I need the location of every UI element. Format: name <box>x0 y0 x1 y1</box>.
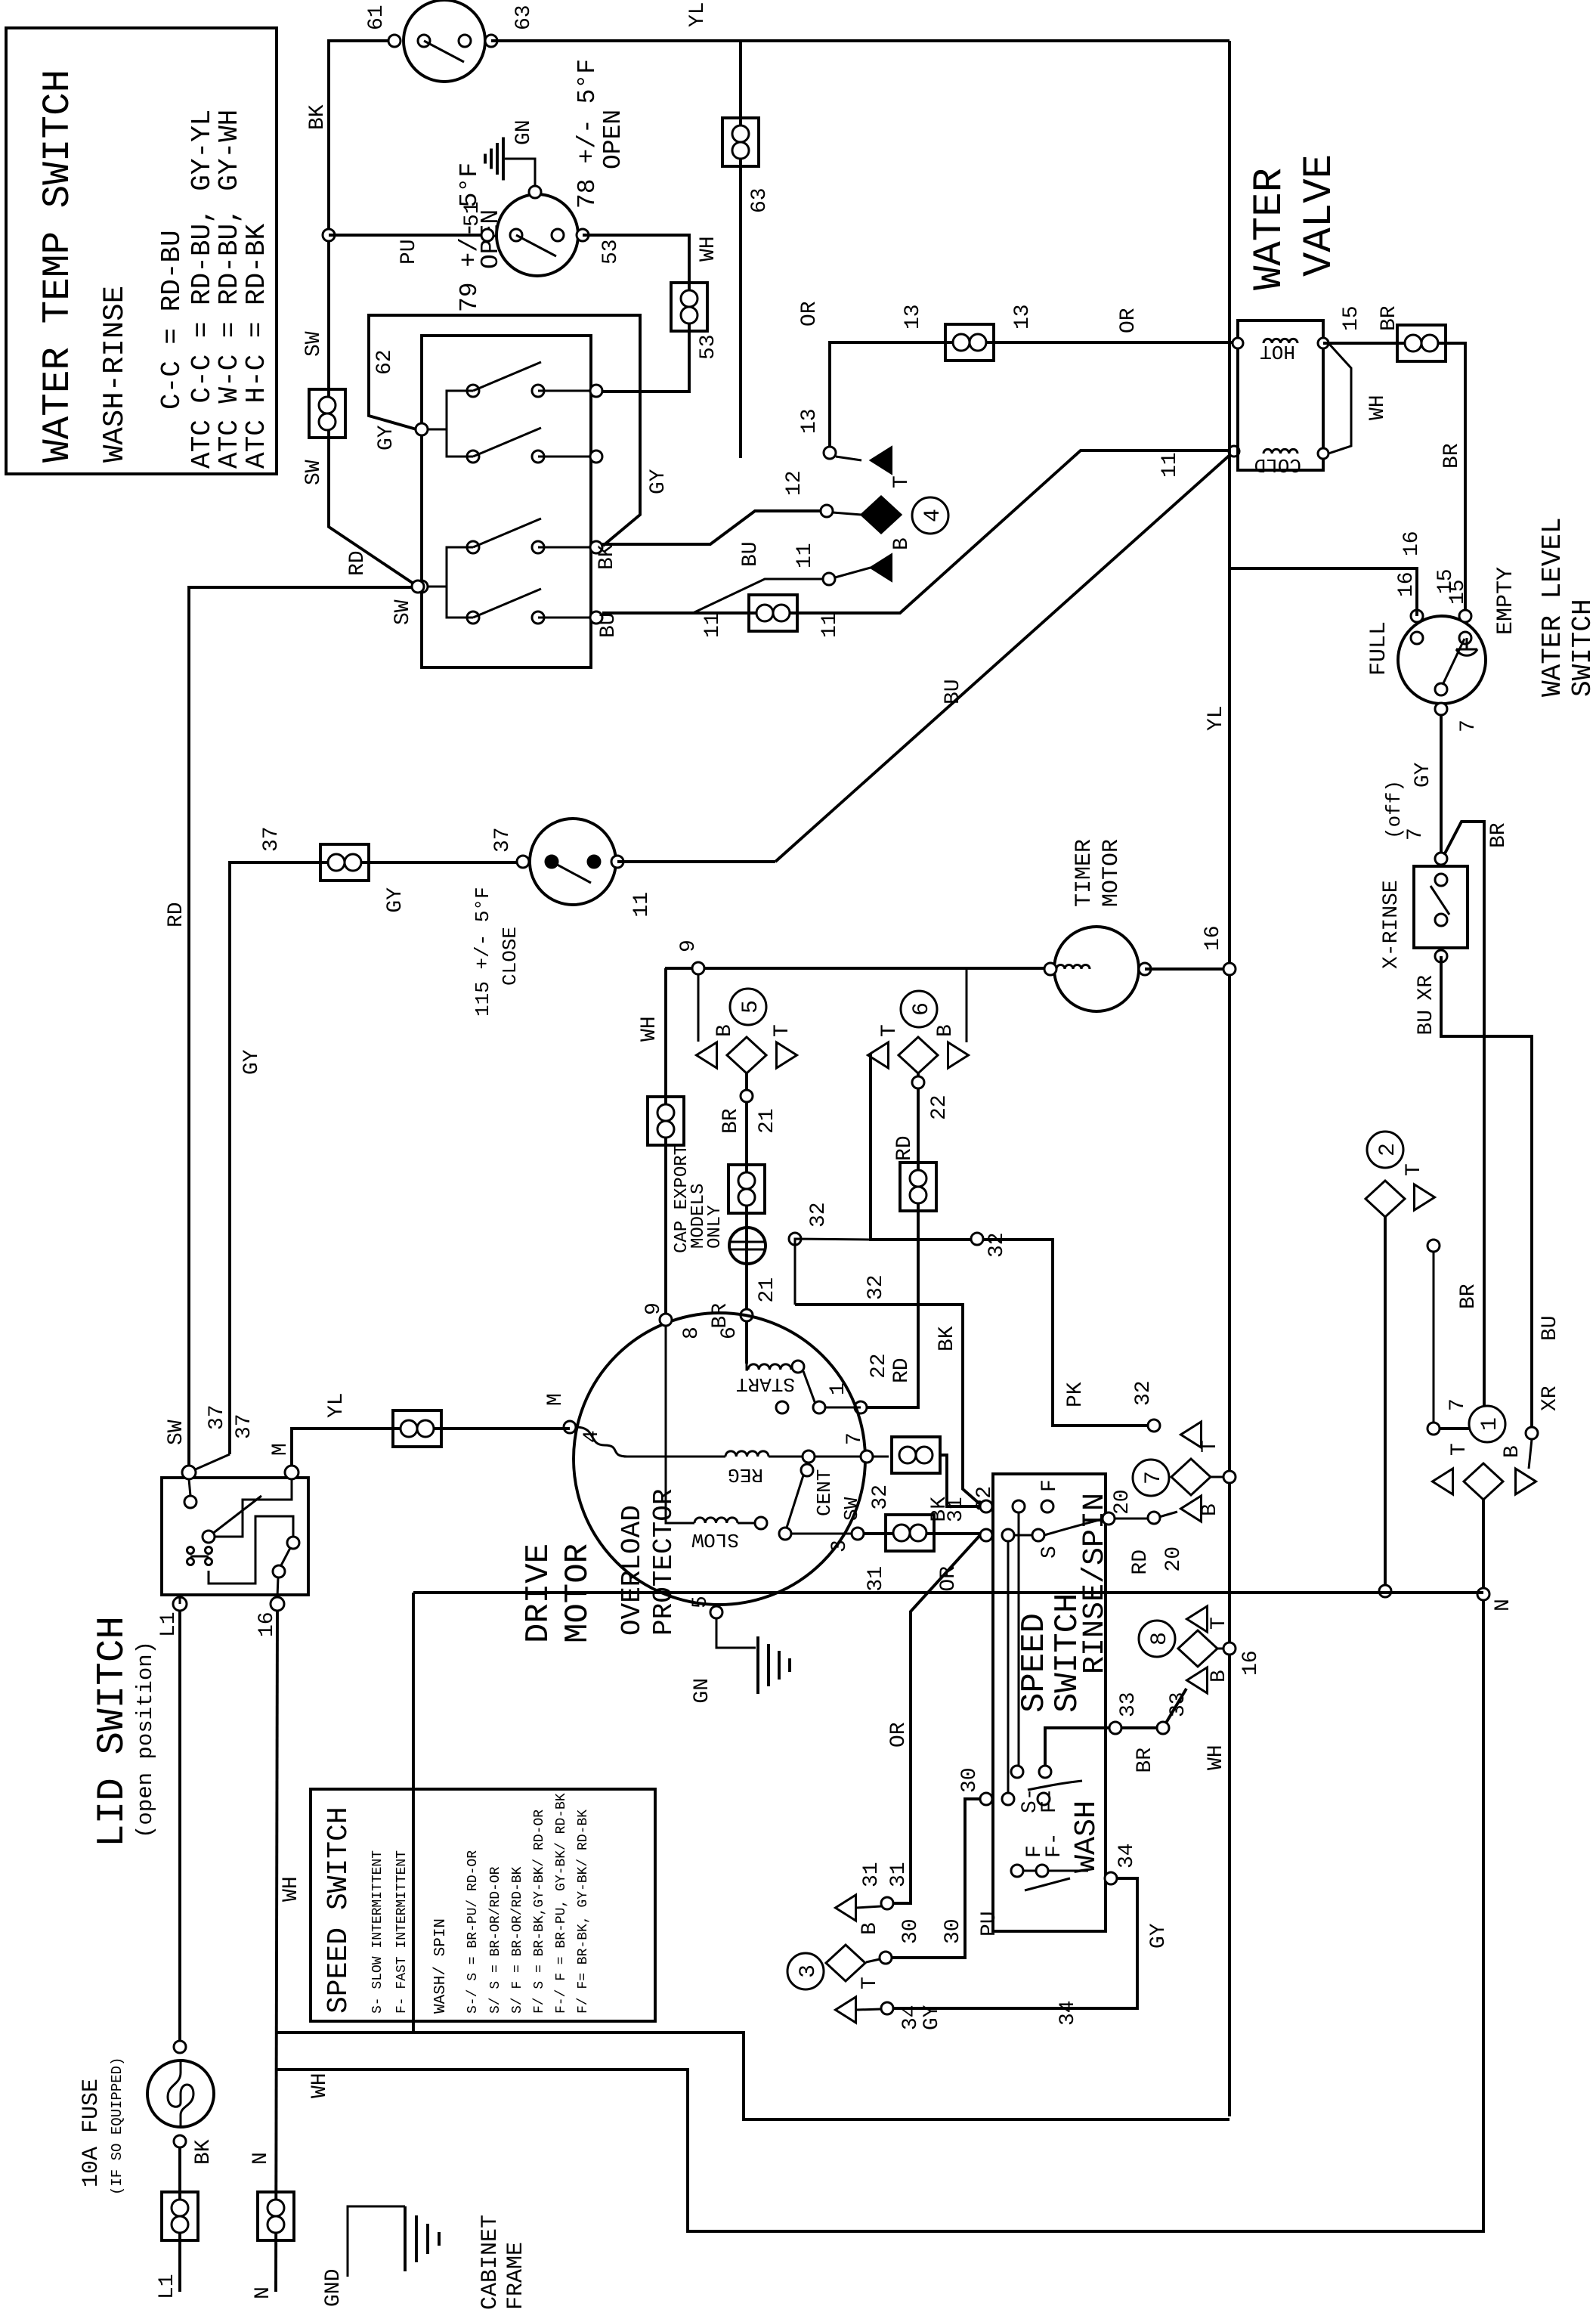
CENT SW blade <box>787 1475 803 1528</box>
svg-text:31: 31 <box>860 1862 883 1887</box>
svg-text:OR: OR <box>887 1722 911 1748</box>
flag 5 circle 5 <box>730 989 766 1025</box>
link F pair <box>1023 1870 1036 1872</box>
svg-text:BR: BR <box>1134 1748 1157 1773</box>
svg-text:CLOSE: CLOSE <box>499 927 521 986</box>
switch blade WH <box>473 362 541 391</box>
svg-text:OR: OR <box>798 301 821 327</box>
svg-text:WH: WH <box>697 236 720 262</box>
svg-text:16: 16 <box>255 1611 279 1637</box>
switch blade BK <box>473 519 541 547</box>
svg-text:9: 9 <box>677 940 701 952</box>
bracket sw1-sw2 <box>447 391 473 457</box>
svg-text:N: N <box>249 2152 273 2165</box>
START contact <box>792 1361 804 1373</box>
svg-text:BR: BR <box>1440 443 1464 469</box>
flag 3 circle 3 <box>787 1953 824 1989</box>
svg-text:20: 20 <box>1111 1489 1134 1515</box>
START blade <box>803 1371 816 1406</box>
svg-text:T: T <box>1199 1440 1222 1453</box>
F pair contacts <box>1011 1865 1023 1877</box>
speed switch legend box <box>311 1789 655 2021</box>
svg-text:BK: BK <box>595 544 619 570</box>
flag 1 diamond <box>1464 1463 1503 1500</box>
node 7b <box>1427 1240 1440 1252</box>
wire GY 7 <box>1440 715 1443 853</box>
svg-text:37: 37 <box>206 1404 229 1430</box>
node XR <box>1526 1427 1538 1439</box>
wire 63 <box>739 41 742 458</box>
svg-text:OR: OR <box>1117 308 1140 333</box>
lid L1 terminal <box>173 1597 187 1611</box>
node 22b <box>855 1401 867 1413</box>
node F entry <box>980 1500 992 1512</box>
valve HOT terminals <box>1233 338 1243 348</box>
thermostat 79F blade <box>424 41 464 62</box>
svg-text:7: 7 <box>1141 1471 1167 1485</box>
svg-text:10A FUSE: 10A FUSE <box>79 2079 104 2187</box>
flag4 B stub <box>835 568 871 577</box>
svg-text:F: F <box>1038 1479 1062 1492</box>
lid SW terminal <box>182 1466 196 1479</box>
connector WH53 <box>671 283 707 331</box>
svg-text:S-/ S = BR-PU/ RD-OR: S-/ S = BR-PU/ RD-OR <box>466 1850 481 2014</box>
lid inner path <box>209 1516 293 1584</box>
x-rinse box <box>1414 866 1468 948</box>
lid switch box <box>162 1478 308 1595</box>
svg-text:15: 15 <box>1340 305 1363 331</box>
svg-text:BR: BR <box>1378 305 1401 331</box>
svg-text:S/ S = BR-OR/RD-OR: S/ S = BR-OR/RD-OR <box>488 1866 503 2014</box>
wire 9 to flag5 <box>697 974 700 1042</box>
svg-text:32: 32 <box>807 1202 830 1228</box>
svg-text:T: T <box>771 1024 794 1037</box>
svg-text:13: 13 <box>1011 304 1035 330</box>
lid tiny contacts <box>187 1559 194 1565</box>
wire YL right rail <box>491 39 1229 42</box>
wire 32 to F <box>940 1455 981 1506</box>
lid contact c <box>287 1537 299 1549</box>
svg-text:SPEED SWITCH: SPEED SWITCH <box>323 1807 355 2014</box>
30 contacts <box>1002 1793 1014 1805</box>
svg-text:(open position): (open position) <box>133 1641 158 1838</box>
svg-text:SW: SW <box>391 599 415 625</box>
node flag7 rail <box>1223 1471 1236 1483</box>
connector WH9 <box>648 1097 684 1145</box>
svg-text:F- FAST INTERMITTENT: F- FAST INTERMITTENT <box>394 1850 410 2014</box>
svg-text:S: S <box>1038 1546 1062 1559</box>
node flag8 rail <box>1223 1642 1236 1655</box>
wire 15 BR <box>1323 343 1465 613</box>
svg-text:M: M <box>544 1393 568 1406</box>
node 1 <box>813 1401 825 1413</box>
svg-text:COLD: COLD <box>1254 454 1301 476</box>
svg-text:F/ S = BR-BK,GY-BK/ RD-OR: F/ S = BR-BK,GY-BK/ RD-OR <box>532 1810 547 2014</box>
node 6 <box>741 1309 753 1321</box>
svg-text:61: 61 <box>365 5 388 30</box>
node 62 feed <box>416 423 428 435</box>
wire GND <box>348 2206 405 2277</box>
wire F pair drop <box>1048 1870 1088 1872</box>
connector BR15 <box>1397 325 1446 361</box>
switch contacts BK <box>467 541 479 553</box>
svg-text:GN: GN <box>691 1678 714 1704</box>
svg-text:62: 62 <box>373 349 397 375</box>
svg-text:HOT: HOT <box>1260 340 1295 363</box>
wire 53 WH <box>583 235 689 392</box>
svg-text:BK: BK <box>928 1497 951 1522</box>
flag 8 diamond <box>1178 1630 1217 1667</box>
svg-text:4: 4 <box>920 509 946 522</box>
svg-text:7: 7 <box>1457 720 1480 732</box>
svg-text:5: 5 <box>689 1596 713 1608</box>
node 12 <box>821 505 833 517</box>
wire 31 OR diag <box>893 1535 980 1903</box>
svg-text:GN: GN <box>512 119 536 145</box>
lid tiny link <box>190 1556 209 1558</box>
svg-text:BU: BU <box>597 612 620 638</box>
svg-text:115 +/- 5°F: 115 +/- 5°F <box>472 887 494 1017</box>
svg-text:T: T <box>1448 1443 1471 1456</box>
svg-text:16: 16 <box>1239 1650 1263 1676</box>
water valve box <box>1238 320 1323 470</box>
svg-text:51: 51 <box>461 201 484 227</box>
svg-text:WASH: WASH <box>1070 1800 1104 1873</box>
svg-text:22: 22 <box>928 1094 951 1120</box>
svg-text:11: 11 <box>630 892 654 918</box>
lid contact d <box>273 1565 285 1577</box>
timer contacts <box>1044 963 1056 975</box>
svg-text:15: 15 <box>1446 579 1470 605</box>
valve COLD coil <box>1263 449 1298 454</box>
svg-text:6: 6 <box>909 1002 935 1016</box>
svg-text:L1: L1 <box>156 2274 179 2299</box>
svg-text:7: 7 <box>1404 828 1427 841</box>
timer to rail <box>1145 967 1223 971</box>
wire motor internal bus <box>624 1320 666 1457</box>
wire 3 motor <box>791 1533 852 1535</box>
svg-text:L1: L1 <box>157 1611 181 1637</box>
flag 7 diamond <box>1171 1459 1211 1495</box>
diagonal BU from 115 switch <box>775 451 1234 862</box>
node 34 <box>881 2002 893 2014</box>
wire 34 GY <box>893 1878 1137 2008</box>
connector 13 <box>945 324 994 361</box>
flag 5 diamond <box>727 1037 766 1073</box>
wire motor internal to slow <box>666 1457 694 1523</box>
ground motor GN <box>756 1636 759 1694</box>
svg-text:XR: XR <box>1415 975 1438 1001</box>
svg-text:S- SLOW INTERMITTENT: S- SLOW INTERMITTENT <box>370 1850 385 2014</box>
flag 4 circle 4 <box>912 497 948 534</box>
flag 3 triangle T <box>836 1997 856 2023</box>
speed switch box <box>993 1474 1106 1931</box>
svg-text:3: 3 <box>796 1964 821 1978</box>
connector YL M <box>393 1410 441 1447</box>
long rail F <box>1018 1512 1020 1772</box>
svg-text:BR: BR <box>709 1303 732 1329</box>
lid blade 2 <box>281 1548 290 1565</box>
svg-text:32: 32 <box>869 1485 892 1510</box>
svg-text:N: N <box>1492 1599 1515 1611</box>
svg-text:21: 21 <box>756 1277 779 1303</box>
motor 5 contact <box>710 1606 722 1618</box>
115F contacts <box>517 856 529 868</box>
wire BK 32 <box>795 1305 981 1505</box>
long rail S <box>1007 1541 1010 1799</box>
svg-text:TIMER: TIMER <box>1072 839 1097 907</box>
REG contact <box>769 1456 803 1458</box>
svg-text:ATC H-C = RD-BK: ATC H-C = RD-BK <box>241 224 272 469</box>
SLOW coil <box>694 1518 738 1523</box>
connector RD22 <box>900 1163 936 1211</box>
svg-text:T: T <box>1208 1617 1231 1630</box>
svg-text:T: T <box>890 475 914 488</box>
svg-text:B: B <box>934 1024 957 1037</box>
svg-text:F/ F= BR-BK, GY-BK/ RD-BK: F/ F= BR-BK, GY-BK/ RD-BK <box>576 1810 591 2014</box>
switch terminal YL <box>538 456 591 458</box>
CENT SW contact <box>801 1464 813 1476</box>
svg-text:BK: BK <box>192 2139 215 2165</box>
svg-text:32: 32 <box>865 1274 888 1300</box>
svg-text:F-: F- <box>1038 1788 1062 1813</box>
wire 37 lid diag <box>192 1454 230 1471</box>
svg-text:B: B <box>1501 1445 1524 1458</box>
svg-text:T: T <box>878 1024 902 1037</box>
wire 11 from 115F <box>617 860 775 863</box>
lid M terminal <box>285 1466 298 1479</box>
svg-text:REG: REG <box>728 1463 763 1486</box>
flag 7 circle 7 <box>1133 1460 1169 1496</box>
svg-text:MOTOR: MOTOR <box>1099 839 1124 907</box>
node 9 <box>692 962 704 974</box>
wire BR 33 <box>1045 1689 1186 1772</box>
svg-text:2: 2 <box>1375 1143 1401 1156</box>
wire L1 left <box>178 2147 181 2292</box>
wire S rail <box>1014 1534 1032 1537</box>
wire BR bypass <box>1440 822 1484 1429</box>
node 30 entry <box>980 1793 992 1805</box>
svg-text:31: 31 <box>865 1566 888 1592</box>
wire flag6 B feed <box>966 969 968 1042</box>
valve HOT coil <box>1263 339 1298 343</box>
START coil <box>747 1364 748 1370</box>
svg-text:53: 53 <box>697 334 720 360</box>
svg-text:1: 1 <box>827 1382 850 1395</box>
flag 3 triangle B <box>836 1895 856 1921</box>
wire 7 motor <box>815 1456 861 1458</box>
svg-text:B: B <box>713 1024 737 1037</box>
svg-text:32: 32 <box>1132 1380 1155 1406</box>
svg-text:9: 9 <box>642 1302 666 1315</box>
flag 6 circle 6 <box>901 991 937 1027</box>
wire PU <box>329 234 487 237</box>
wire 31 OR <box>864 1532 986 1535</box>
switch contacts WH <box>467 385 479 397</box>
svg-text:34: 34 <box>1115 1843 1139 1868</box>
svg-text:4: 4 <box>580 1430 604 1443</box>
svg-text:WATER LEVEL: WATER LEVEL <box>1537 517 1568 697</box>
connector 63 <box>722 118 759 166</box>
svg-text:YL: YL <box>325 1392 348 1418</box>
motor 7 contact <box>861 1450 873 1463</box>
wash blade 2 <box>1025 1878 1070 1890</box>
flag 6 triangle B <box>948 1042 969 1068</box>
wire 62 GY riser <box>369 315 640 546</box>
thermostat 78F blade <box>516 235 556 256</box>
svg-text:SW: SW <box>302 331 326 357</box>
flag 6 triangle T <box>868 1042 889 1068</box>
connector 11 <box>749 595 797 631</box>
node SW feed <box>416 580 428 593</box>
svg-text:OVERLOAD: OVERLOAD <box>617 1505 648 1636</box>
fuse circle <box>147 2060 214 2127</box>
fuse top contact <box>174 2041 186 2053</box>
flag 8 circle 8 <box>1139 1621 1175 1657</box>
wire OR 13 <box>830 342 1239 447</box>
wire WH lid run <box>412 1593 415 2033</box>
motor 9 contact <box>660 1314 672 1326</box>
node flag2 N <box>1379 1585 1391 1597</box>
svg-text:RD: RD <box>346 550 370 576</box>
flag 2 circle 2 <box>1367 1132 1403 1168</box>
svg-text:6: 6 <box>718 1327 741 1339</box>
svg-text:16: 16 <box>1400 531 1424 556</box>
ground cabinet bars <box>404 2206 407 2271</box>
flag 4 wire 13 stub <box>836 457 861 460</box>
WLS contacts 15 <box>1459 610 1471 622</box>
WASH top contacts <box>1011 1766 1023 1778</box>
lid middle contact <box>203 1531 215 1543</box>
svg-text:WASH-RINSE: WASH-RINSE <box>98 286 131 463</box>
svg-text:YL: YL <box>1205 705 1228 731</box>
lid M zigzag <box>215 1479 292 1537</box>
flag 3 diamond <box>826 1945 865 1981</box>
svg-text:VALVE: VALVE <box>1297 154 1343 277</box>
thermostat 78F contacts <box>481 229 493 241</box>
svg-text:B: B <box>1208 1670 1231 1683</box>
svg-text:8: 8 <box>1147 1632 1173 1646</box>
wire WH legend loop <box>277 2033 1229 2119</box>
node 7 off <box>1435 853 1447 865</box>
flag 4 diamond <box>861 497 901 533</box>
svg-text:START: START <box>736 1373 795 1395</box>
wire timer vertical <box>665 967 1055 970</box>
flag 5 triangle T <box>777 1042 797 1068</box>
svg-text:13: 13 <box>902 304 925 330</box>
flag 7 triangle B <box>1181 1496 1202 1522</box>
x-rinse blade <box>1431 886 1449 915</box>
svg-text:53: 53 <box>599 239 623 265</box>
flag 7 triangle T <box>1181 1422 1202 1447</box>
overload protector squiggle <box>576 1427 627 1457</box>
fuse element <box>168 2062 193 2125</box>
svg-text:PK: PK <box>1064 1382 1087 1407</box>
wire BK 12 <box>602 511 821 544</box>
wire GN motor <box>716 1618 756 1648</box>
water temp switch legend box <box>6 28 277 474</box>
flag1 B stub <box>1529 1439 1532 1469</box>
WLS contacts 16 <box>1411 610 1423 622</box>
wire N 16 <box>276 1611 277 2292</box>
flag 2 diamond <box>1366 1181 1405 1217</box>
node 32b <box>971 1233 983 1245</box>
svg-text:SPEED: SPEED <box>1016 1613 1053 1713</box>
svg-text:PU: PU <box>978 1911 1001 1937</box>
flag4 branch 11 <box>693 579 823 613</box>
switch blade BU <box>473 589 541 618</box>
svg-text:B: B <box>858 1922 882 1935</box>
svg-text:BU: BU <box>1539 1315 1562 1341</box>
svg-text:SW: SW <box>840 1497 863 1521</box>
switch terminal BK <box>538 546 591 549</box>
node S entry <box>980 1529 992 1541</box>
node 13 <box>824 447 836 459</box>
svg-text:63: 63 <box>748 187 772 213</box>
svg-text:XR: XR <box>1539 1385 1562 1411</box>
rinse/spin blade <box>1044 1519 1104 1535</box>
svg-text:22: 22 <box>868 1353 891 1379</box>
connector L1 <box>162 2192 198 2240</box>
svg-text:BR: BR <box>719 1108 743 1134</box>
115F blade <box>552 862 591 883</box>
svg-text:T: T <box>858 1977 882 1989</box>
S contacts <box>1002 1529 1014 1541</box>
svg-text:N: N <box>252 2286 275 2299</box>
svg-text:3: 3 <box>828 1540 852 1553</box>
flag 1 triangle B <box>1516 1469 1536 1494</box>
svg-text:20: 20 <box>1162 1546 1186 1572</box>
node RD SW <box>412 580 424 593</box>
svg-text:T: T <box>1403 1163 1426 1176</box>
svg-text:WH: WH <box>1205 1745 1228 1770</box>
wire 16 WLS <box>1229 568 1417 616</box>
svg-text:YL: YL <box>686 2 710 27</box>
thermostat 78F circle <box>496 194 578 276</box>
svg-text:SW: SW <box>302 460 326 485</box>
svg-text:M: M <box>269 1443 292 1456</box>
svg-text:78 +/- 5°F: 78 +/- 5°F <box>574 59 602 209</box>
svg-text:32: 32 <box>985 1232 1009 1258</box>
wire L1 to lid <box>179 1597 181 1604</box>
svg-text:WH: WH <box>1366 395 1390 420</box>
svg-text:CABINET: CABINET <box>478 2215 503 2310</box>
svg-text:8: 8 <box>680 1327 704 1339</box>
svg-text:37: 37 <box>491 827 515 853</box>
water temp switch bank box <box>422 336 591 667</box>
svg-text:PROTECTOR: PROTECTOR <box>648 1489 679 1636</box>
svg-text:GY: GY <box>1147 1923 1171 1949</box>
svg-text:FRAME: FRAME <box>503 2242 529 2310</box>
svg-text:7: 7 <box>1446 1398 1470 1411</box>
lid 16 terminal <box>271 1597 284 1611</box>
svg-text:5: 5 <box>738 1000 764 1014</box>
connector SW <box>309 389 345 438</box>
svg-text:12: 12 <box>783 470 806 496</box>
capacitor CAP <box>729 1228 766 1264</box>
switch terminal WH <box>538 390 591 392</box>
wire WH outer loop <box>277 1600 1483 2231</box>
svg-text:WH: WH <box>280 1876 303 1902</box>
wire 20 <box>1112 1512 1177 1519</box>
switch contacts YL <box>467 450 479 463</box>
node BR 7 <box>1427 1423 1440 1435</box>
svg-text:37: 37 <box>233 1413 256 1439</box>
wire WH to motor <box>664 968 667 1314</box>
wire 37 <box>230 862 520 1454</box>
connector 32 <box>892 1437 940 1473</box>
svg-text:1: 1 <box>1477 1417 1503 1431</box>
